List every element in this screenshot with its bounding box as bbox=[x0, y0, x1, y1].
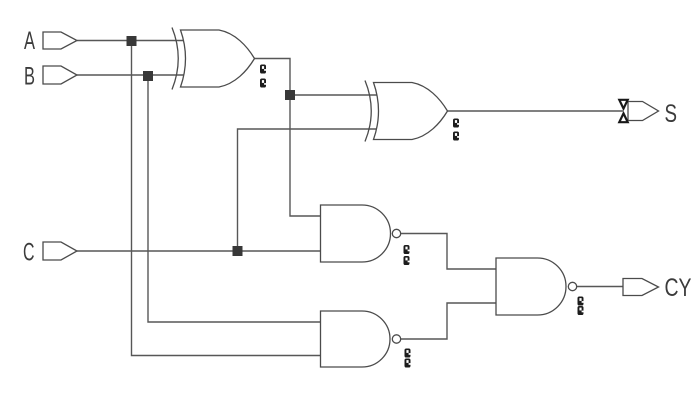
node J2 on B wire bbox=[143, 71, 153, 81]
node J3 on C wire bbox=[233, 246, 243, 256]
output port S bbox=[628, 102, 659, 121]
xor gate U2 body bbox=[374, 83, 448, 140]
input port C bbox=[43, 242, 77, 260]
nand gate U3 body bbox=[321, 205, 391, 262]
svg-text:C: C bbox=[23, 239, 35, 267]
wire XOR2 output to S bbox=[448, 110, 624, 112]
S port marker triangle up bbox=[619, 113, 627, 122]
wire A-branch vertical down bbox=[132, 41, 322, 356]
output port CY bbox=[623, 279, 659, 296]
wire node down to NAND1 top input bbox=[290, 95, 321, 216]
wire B to XOR1 bbox=[77, 74, 185, 76]
node J1 on A wire bbox=[127, 36, 137, 46]
xor U2 label 0 bbox=[453, 119, 459, 128]
svg-text:CY: CY bbox=[665, 274, 692, 302]
xor gate U1 outer arc bbox=[172, 28, 178, 90]
wire XOR1 output to node bbox=[255, 59, 291, 96]
wire B-branch vertical down bbox=[148, 76, 321, 322]
wire C to NAND1 bottom input bbox=[77, 250, 321, 252]
S port marker triangle down bbox=[619, 100, 627, 109]
nand U3 label 0 bbox=[404, 245, 410, 254]
input port A bbox=[43, 32, 77, 49]
nand U3 label 0b bbox=[404, 256, 410, 265]
xor U1 label 0 bbox=[260, 65, 266, 74]
node J4 XOR1 output branch bbox=[285, 90, 295, 100]
nand U4 label 0b bbox=[405, 359, 411, 368]
xor gate U2 outer arc bbox=[365, 81, 371, 142]
xor U2 label 0b bbox=[453, 132, 459, 141]
wire node to XOR2 top input bbox=[290, 94, 378, 96]
nand U3 bubble bbox=[392, 229, 400, 237]
svg-text:B: B bbox=[24, 63, 35, 91]
nand U5 bubble bbox=[568, 282, 576, 290]
wire C-branch vertical up to XOR2 bottom input bbox=[238, 129, 379, 251]
input port B bbox=[43, 66, 77, 84]
nand U5 label 0b bbox=[578, 306, 584, 315]
xor U1 label 0b bbox=[260, 79, 266, 88]
wire NAND3 output to CY bbox=[577, 286, 623, 288]
xor gate U1 body bbox=[181, 30, 255, 87]
wire NAND2 output to NAND3 bottom input bbox=[401, 303, 496, 339]
wire A to XOR1 bbox=[77, 40, 185, 42]
nand U4 bubble bbox=[392, 335, 400, 343]
svg-text:S: S bbox=[665, 100, 678, 128]
nand gate U5 body bbox=[496, 258, 566, 315]
svg-text:A: A bbox=[24, 27, 35, 55]
nand U4 label 0 bbox=[405, 349, 411, 358]
wire NAND1 output to NAND3 top input bbox=[401, 234, 496, 270]
nand gate U4 body bbox=[321, 311, 391, 367]
nand U5 label 0 bbox=[578, 297, 584, 306]
